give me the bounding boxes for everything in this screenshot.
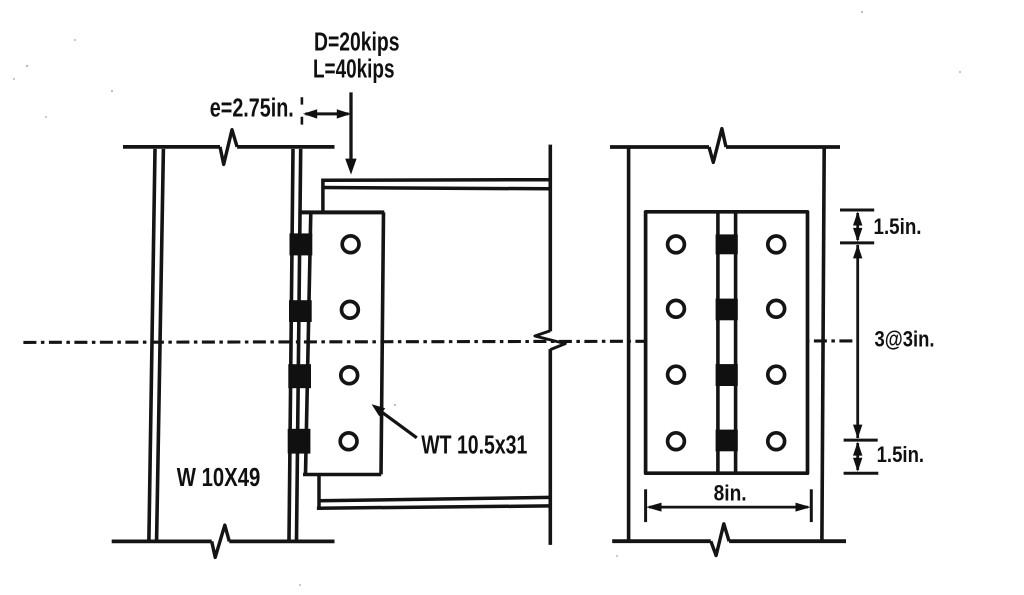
column left flange outer line — [149, 149, 155, 540]
load arrow shaft — [349, 92, 352, 161]
bolt hole H3 left view — [341, 367, 358, 384]
svg-text:e=2.75in.: e=2.75in. — [210, 95, 294, 123]
arrowhead down to last row tick — [853, 425, 862, 439]
leader line to WT — [381, 411, 417, 438]
dimension line segment 3@3in — [856, 245, 859, 438]
right view column bottom edge with break symbol — [612, 539, 711, 543]
bolt B4 side view (black) — [288, 429, 311, 454]
leader arrow head — [372, 404, 386, 416]
arrowhead down to first row tick — [853, 228, 862, 242]
beam top flange end cap — [321, 179, 325, 213]
WT stem edge right line — [734, 212, 738, 473]
bolt hole H12 — [768, 433, 785, 450]
svg-text:D=20kips: D=20kips — [314, 29, 400, 57]
svg-text:1.5in.: 1.5in. — [877, 442, 925, 467]
arrowhead down to plate bottom tick — [853, 458, 862, 472]
beam web break zigzag — [535, 331, 565, 350]
bolt B3 face view (black) — [716, 364, 738, 386]
WT stem plate right edge — [381, 212, 384, 474]
beam web break line upper — [548, 145, 552, 332]
bolt hole H11 — [768, 366, 785, 383]
arrowhead up to last row tick — [853, 442, 862, 456]
eccentricity dimension arrow line — [306, 112, 349, 115]
column right flange outer line — [297, 149, 301, 540]
beam bottom flange end cap — [317, 475, 321, 509]
bolt hole H4 left view — [340, 433, 357, 450]
bolt hole H1 left view — [342, 236, 359, 253]
eccentricity arrow right head — [337, 109, 351, 118]
bolt hole H8 — [668, 433, 685, 450]
right view column left edge — [627, 147, 631, 542]
beam bottom flange upper line — [319, 497, 551, 500]
bolt B2 side view (black) — [289, 300, 312, 322]
column left flange inner line — [157, 149, 164, 540]
svg-text:L=40kips: L=40kips — [313, 55, 395, 83]
8in dimension right tick — [810, 489, 813, 522]
bolt B3 side view (black) — [288, 364, 311, 388]
eccentricity arrow left head — [303, 109, 317, 118]
svg-text:WT 10.5x31: WT 10.5x31 — [421, 431, 527, 459]
svg-text:W 10X49: W 10X49 — [177, 462, 260, 492]
column right flange inner line — [289, 149, 293, 540]
beam top flange upper line — [323, 178, 550, 182]
column W10X49 bottom edge line with break symbol — [112, 540, 212, 544]
centerline dash-dot across both views — [23, 341, 855, 343]
WT stem plate top edge — [301, 210, 385, 214]
svg-text:3@3in.: 3@3in. — [875, 327, 935, 352]
bolt B4 face view (black) — [716, 430, 738, 452]
bolt B1 side view (black) — [290, 233, 313, 255]
WT flange plate face view — [646, 212, 808, 473]
dimension tick first bolt row — [840, 241, 874, 244]
dimension tick last bolt row — [844, 439, 878, 442]
8in arrow left head — [646, 503, 662, 512]
bolt B1 face view (black) — [716, 234, 738, 254]
dimension tick plate top — [840, 209, 874, 212]
arrowhead up to first row tick — [853, 244, 862, 258]
bolt hole H2 left view — [342, 301, 359, 318]
column W10X49 top edge line with break symbol — [123, 145, 220, 149]
bolt hole H5 — [668, 236, 685, 253]
dimension tick plate bottom — [844, 472, 879, 475]
dimension line segment 1.5in top — [856, 213, 859, 240]
bolt hole H10 — [768, 300, 785, 317]
right view column top edge with break symbol — [610, 145, 709, 149]
bolt hole H6 — [668, 300, 685, 317]
bolt hole H7 — [668, 366, 685, 383]
8in dimension line — [649, 506, 808, 509]
right view column right edge — [822, 147, 824, 542]
arrowhead up to plate top tick — [853, 212, 862, 226]
beam web break line lower — [548, 349, 552, 545]
dimension line segment 1.5in bottom — [856, 443, 859, 470]
load arrow head — [345, 159, 356, 175]
beam top flange lower line — [323, 188, 550, 189]
bolt B2 face view (black) — [716, 299, 738, 321]
WT stem edge left line — [716, 212, 720, 473]
bolt hole H9 — [768, 236, 785, 253]
WT flange edge line against column — [306, 212, 311, 474]
8in arrow right head — [796, 503, 811, 512]
WT stem plate bottom edge — [303, 473, 381, 477]
8in dimension left tick — [644, 489, 647, 522]
beam bottom flange lower line — [317, 506, 550, 508]
eccentricity reference dashed line — [301, 97, 304, 124]
svg-text:8in.: 8in. — [714, 480, 747, 505]
svg-text:1.5in.: 1.5in. — [874, 214, 922, 239]
